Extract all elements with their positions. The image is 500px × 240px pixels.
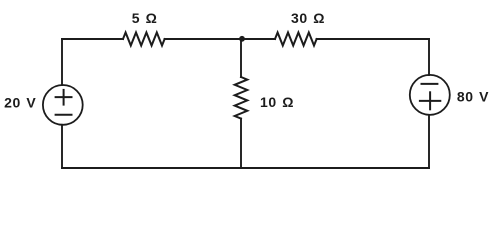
svg-text:30 Ω: 30 Ω xyxy=(291,10,325,26)
wire middle vertical lower xyxy=(240,119,242,168)
resistor R2 30 ohm xyxy=(275,33,317,46)
V1 minus sign xyxy=(56,114,72,116)
resistor R3 10 ohm xyxy=(235,77,248,119)
voltage source V1 circle xyxy=(43,85,83,125)
wire top-right horizontal xyxy=(317,38,429,40)
node junction dot xyxy=(239,36,245,42)
wire top-middle horizontal xyxy=(165,38,242,40)
svg-text:80 V: 80 V xyxy=(457,89,489,105)
wire top-left horizontal xyxy=(62,38,123,40)
V2 minus sign xyxy=(422,83,438,85)
resistor R1 5 ohm xyxy=(123,33,165,46)
wire left vertical lower xyxy=(61,125,63,168)
wire bottom horizontal xyxy=(62,167,429,169)
svg-text:5 Ω: 5 Ω xyxy=(132,10,158,26)
voltage source V2 circle xyxy=(410,75,450,115)
wire right vertical lower xyxy=(428,115,430,168)
svg-text:10 Ω: 10 Ω xyxy=(260,94,294,110)
wire middle vertical upper xyxy=(240,39,242,77)
svg-text:20 V: 20 V xyxy=(4,95,36,111)
wire junction to R2 xyxy=(242,38,275,40)
V1 plus sign xyxy=(56,90,72,105)
wire right vertical upper xyxy=(428,39,430,75)
wire left vertical upper xyxy=(61,39,63,85)
V2 plus sign xyxy=(420,92,440,109)
